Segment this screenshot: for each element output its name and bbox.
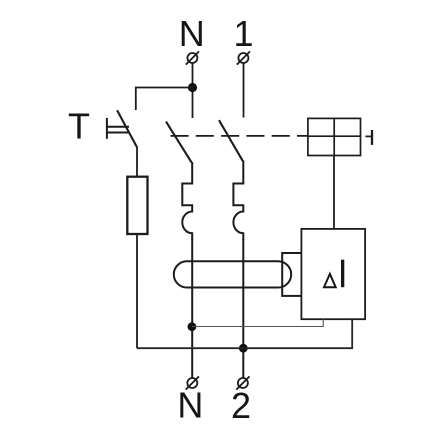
junction dot N bottom bbox=[188, 322, 197, 331]
resistor R test bbox=[127, 177, 147, 234]
wire pole 1 through toroid bbox=[242, 239, 244, 378]
bottom bus wire bbox=[137, 319, 352, 348]
differential relay box bbox=[301, 229, 365, 319]
trip coil solenoid bbox=[308, 118, 361, 155]
svg-text:N: N bbox=[177, 384, 203, 425]
relay feed wire thin bbox=[192, 319, 323, 326]
wire 1 terminal to pole 1 contact bbox=[243, 63, 245, 118]
wire trip coil to relay bbox=[333, 156, 335, 229]
mechanical linkage dashed bbox=[171, 135, 308, 137]
svg-text:2: 2 bbox=[231, 385, 251, 426]
wire test blade to resistor bbox=[136, 147, 138, 177]
test switch blade bbox=[117, 110, 137, 147]
I bar symbol bbox=[341, 260, 344, 288]
terminal N top bbox=[186, 51, 199, 64]
overcurrent release pole 1 bbox=[233, 161, 243, 241]
svg-text:T: T bbox=[68, 106, 90, 147]
svg-text:N: N bbox=[179, 13, 205, 54]
wire resistor to bottom bus bbox=[136, 234, 138, 348]
wire pole N through toroid bbox=[191, 239, 193, 378]
test button actuator bbox=[107, 118, 129, 139]
terminal 2 bottom bbox=[236, 376, 249, 389]
junction dot 2 bottom bbox=[239, 344, 248, 353]
svg-text:1: 1 bbox=[233, 13, 253, 54]
terminal 1 top bbox=[237, 51, 250, 64]
junction dot top N bbox=[188, 83, 197, 92]
breaker pole N blade bbox=[166, 122, 192, 163]
secondary winding connector box bbox=[282, 253, 303, 296]
breaker pole 1 blade bbox=[219, 120, 243, 161]
toroid current transformer bbox=[174, 261, 291, 287]
wire N terminal to N pole contact bbox=[192, 63, 194, 118]
wire junction to test branch bbox=[136, 88, 193, 111]
trip coil armature and stop tick bbox=[308, 130, 372, 145]
terminal N bottom bbox=[186, 376, 199, 389]
overcurrent release pole N bbox=[182, 162, 192, 240]
delta symbol bbox=[324, 274, 336, 287]
